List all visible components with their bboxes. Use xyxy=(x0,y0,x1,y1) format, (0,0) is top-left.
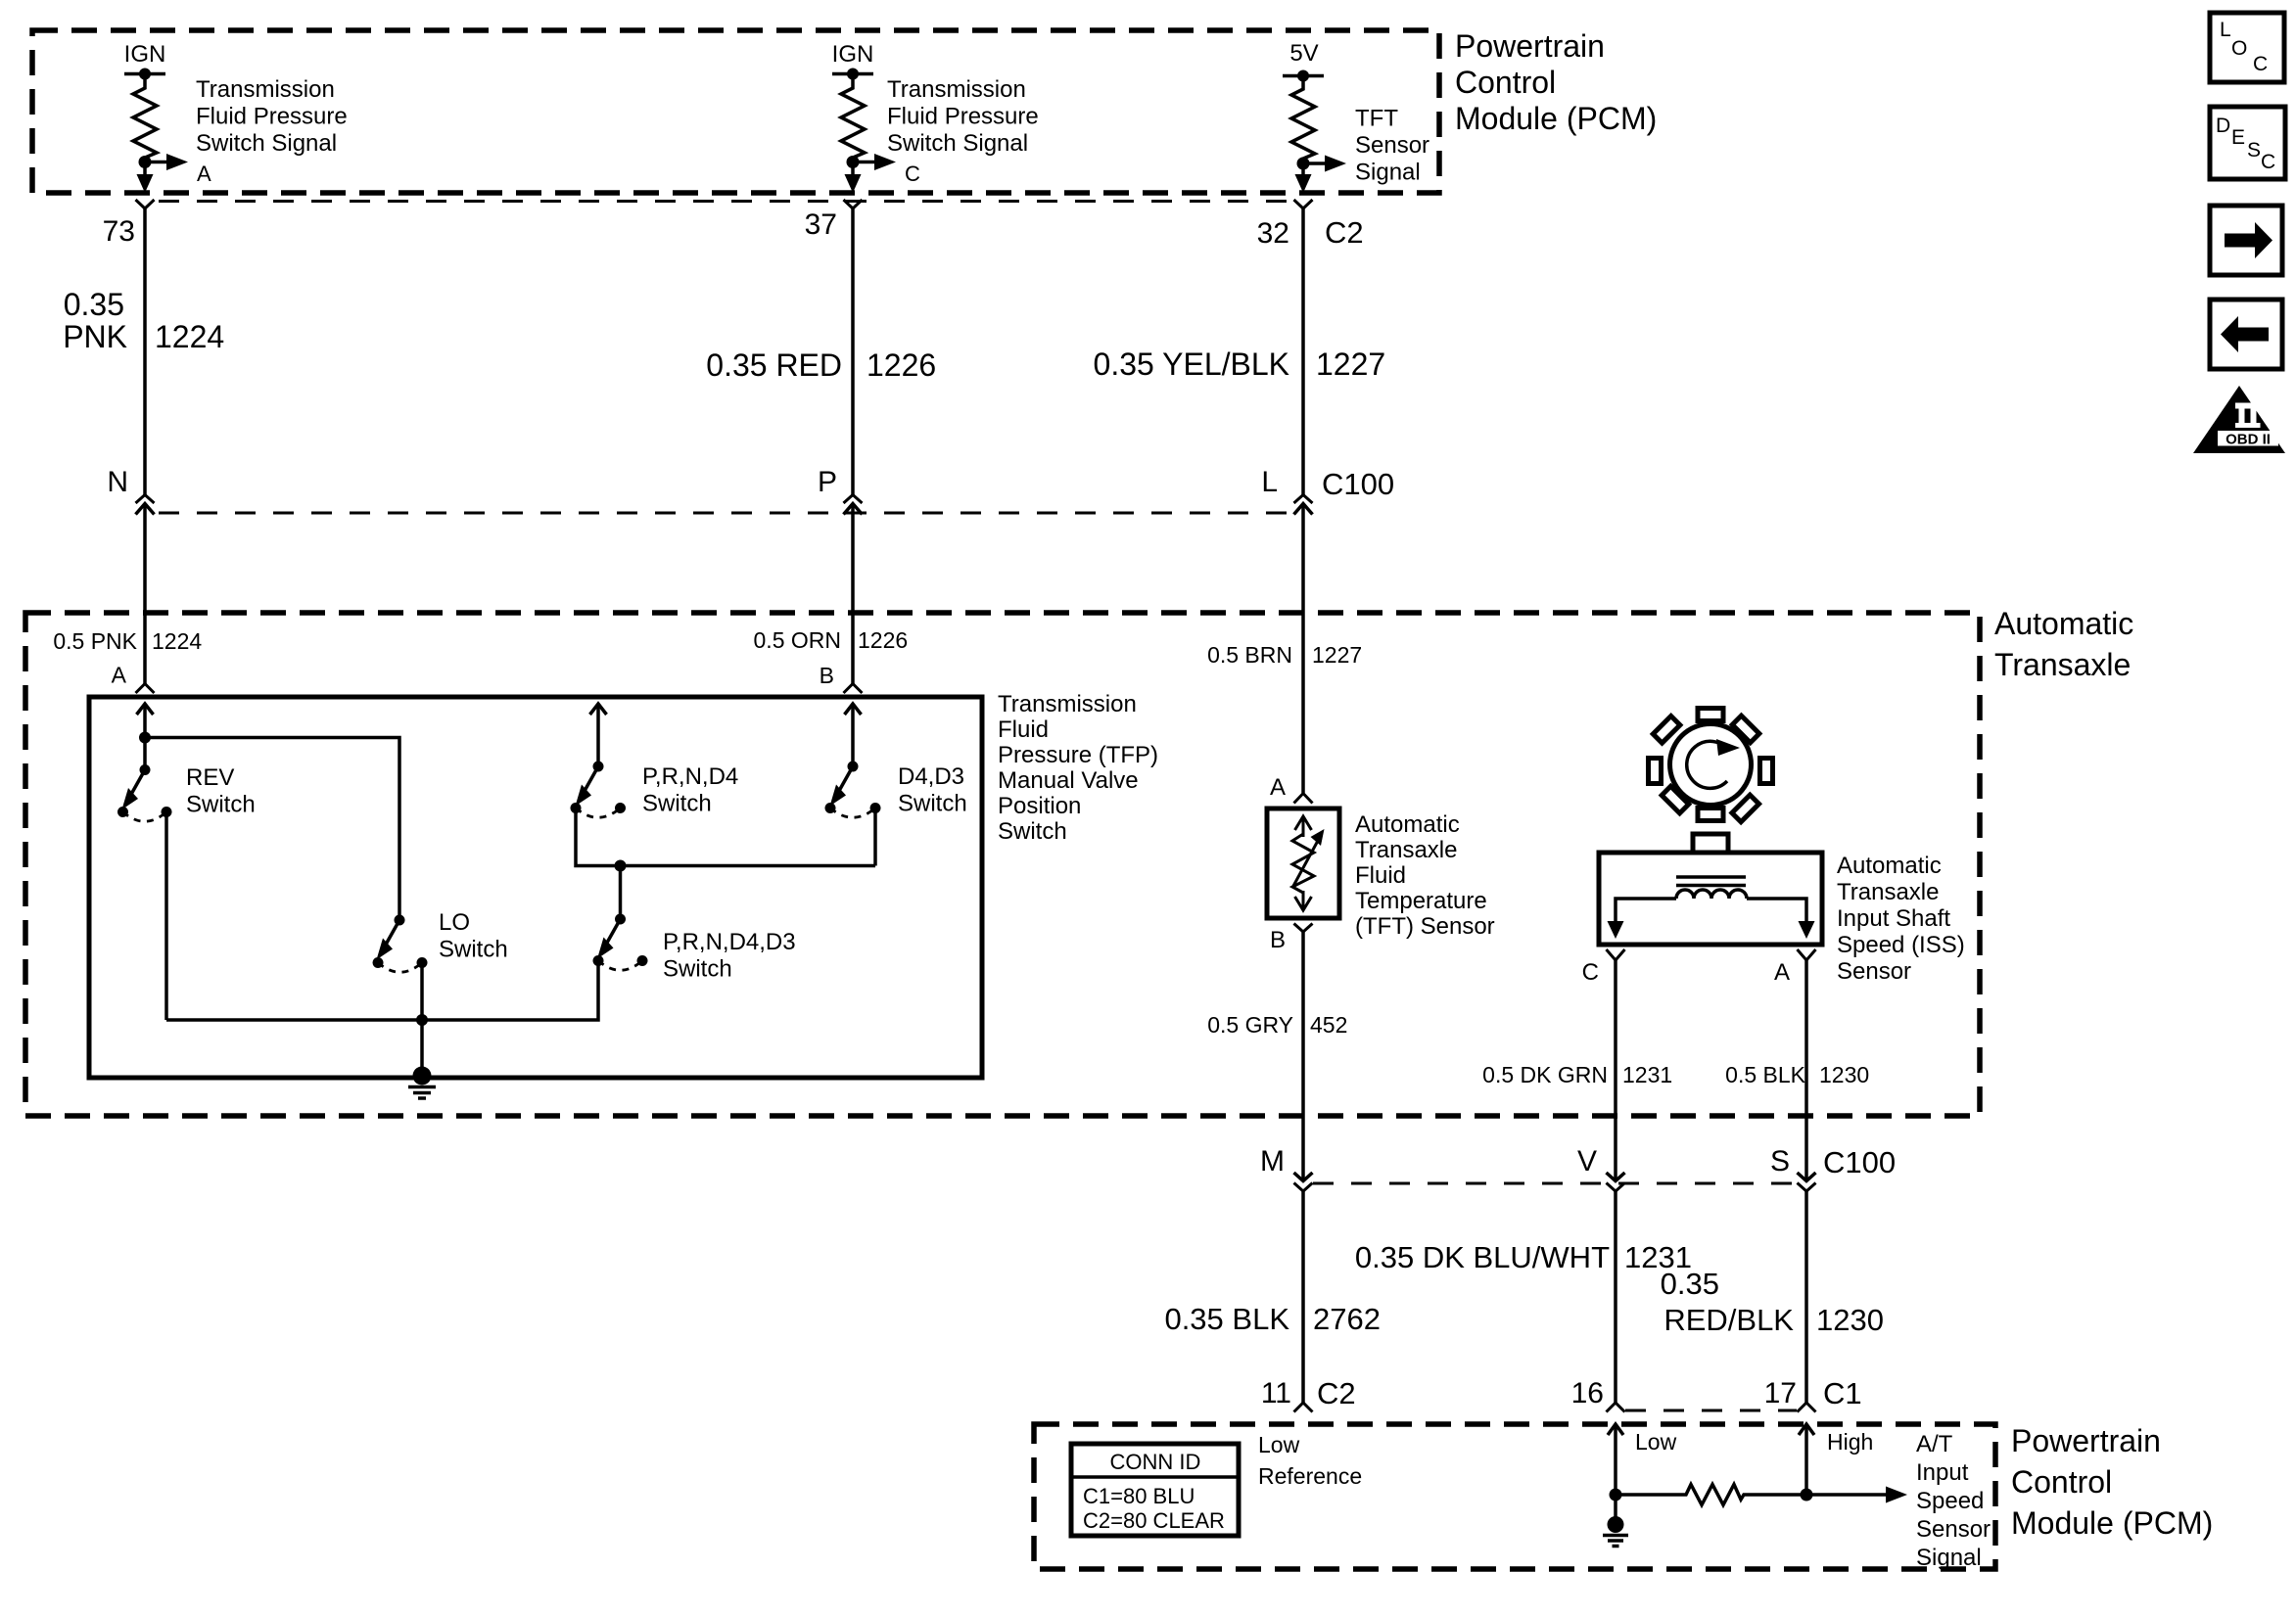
wire 1227 segment PCM to C100 xyxy=(1301,208,1305,495)
connector C100 pin N xyxy=(107,466,154,515)
svg-text:Temperature: Temperature xyxy=(1355,888,1487,914)
connector C1 dashed link 16-17 xyxy=(1625,1409,1797,1412)
svg-text:Switch: Switch xyxy=(642,791,712,817)
svg-text:Transmission: Transmission xyxy=(887,76,1026,103)
svg-text:A/T: A/T xyxy=(1916,1431,1953,1457)
svg-text:1227: 1227 xyxy=(1312,642,1362,668)
svg-text:A: A xyxy=(112,663,127,688)
svg-text:C: C xyxy=(2261,151,2275,173)
svg-text:Signal: Signal xyxy=(1355,160,1421,186)
svg-text:IGN: IGN xyxy=(124,41,166,68)
svg-text:Fluid: Fluid xyxy=(1355,862,1406,889)
svg-text:Switch: Switch xyxy=(663,956,732,983)
label 0.5 BLK 1230 xyxy=(1725,1062,1869,1087)
svg-text:Automatic: Automatic xyxy=(1837,853,1942,879)
label Transmission Fluid Pressure Switch Signal (left) xyxy=(196,76,348,186)
svg-text:A: A xyxy=(197,162,211,186)
connector C2 pin 11 fork xyxy=(1261,1376,1356,1412)
junction to PRND4D3 xyxy=(615,860,627,920)
svg-text:B: B xyxy=(820,663,834,688)
svg-text:REV: REV xyxy=(186,764,234,791)
svg-text:0.35: 0.35 xyxy=(64,287,124,322)
svg-text:1226: 1226 xyxy=(858,627,908,653)
svg-text:C: C xyxy=(2253,53,2268,75)
svg-text:0.5 BRN: 0.5 BRN xyxy=(1207,642,1292,668)
svg-text:P: P xyxy=(818,466,837,498)
svg-text:0.5 BLK: 0.5 BLK xyxy=(1725,1062,1805,1087)
resistor R2 (TFP switch signal pull-up, pin C) xyxy=(832,69,896,194)
wire 2762 C100 to PCM xyxy=(1614,1191,1617,1403)
svg-text:Pressure (TFP): Pressure (TFP) xyxy=(998,742,1158,768)
svg-text:(TFT) Sensor: (TFT) Sensor xyxy=(1355,913,1495,940)
svg-text:Sensor: Sensor xyxy=(1916,1516,1991,1543)
svg-text:Input: Input xyxy=(1916,1459,1969,1486)
label 0.5 PNK 1224 xyxy=(53,628,202,654)
label Automatic Transaxle Fluid Temperature (TFT) Sensor xyxy=(1355,811,1495,940)
ground (TFP switch common) xyxy=(408,1067,436,1099)
svg-text:73: 73 xyxy=(103,215,135,248)
connector C100 pin L xyxy=(1261,466,1394,515)
svg-text:Transaxle: Transaxle xyxy=(1994,647,2131,682)
svg-text:Input Shaft: Input Shaft xyxy=(1837,905,1950,932)
svg-text:1231: 1231 xyxy=(1622,1062,1672,1087)
svg-text:B: B xyxy=(1270,927,1286,953)
label 0.35 PNK 1224 xyxy=(63,287,224,354)
svg-text:C1: C1 xyxy=(1823,1376,1862,1410)
svg-text:L: L xyxy=(2220,19,2231,41)
svg-text:Powertrain: Powertrain xyxy=(1455,28,1605,64)
icon arrow right xyxy=(2210,206,2282,275)
ISS sensor box xyxy=(1599,834,1822,945)
svg-text:Switch: Switch xyxy=(998,818,1067,845)
icon OBD II triangle xyxy=(2193,386,2285,453)
connector C2 pin 73 xyxy=(103,200,155,248)
connector C1 pin 17 fork xyxy=(1764,1376,1862,1412)
label A/T Input Speed Sensor Signal xyxy=(1916,1431,1991,1571)
label 0.5 GRY 452 xyxy=(1207,1012,1347,1038)
svg-text:1227: 1227 xyxy=(1316,346,1385,382)
svg-text:C100: C100 xyxy=(1322,467,1394,501)
connector C100 bottom dashed line xyxy=(1313,1182,1798,1185)
icon LOC xyxy=(2210,13,2284,82)
wire 1224 segment C100 to transaxle xyxy=(143,504,147,684)
switch P,R,N,D4 xyxy=(571,762,739,818)
svg-text:C100: C100 xyxy=(1823,1145,1896,1179)
svg-text:Low: Low xyxy=(1635,1429,1677,1455)
connector C2 pin 37 xyxy=(805,200,863,241)
label 0.5 ORN 1226 xyxy=(754,627,909,653)
svg-text:E: E xyxy=(2231,126,2245,149)
svg-text:Speed: Speed xyxy=(1916,1488,1984,1514)
TFP manual valve position switch box xyxy=(89,697,982,1078)
label 0.35 RED 1226 xyxy=(706,347,936,383)
svg-text:LO: LO xyxy=(439,909,470,936)
ISS sensor leads with arrows xyxy=(1608,899,1815,939)
svg-text:Automatic: Automatic xyxy=(1994,606,2133,641)
wire REV feed with up arrow xyxy=(137,704,154,770)
wire LO right contact down to ground junction xyxy=(416,963,428,1076)
connector C1 pin 16 fork xyxy=(1571,1377,1625,1412)
svg-text:D: D xyxy=(2216,115,2230,137)
svg-text:C: C xyxy=(905,162,920,186)
connector TFT pin B chevron xyxy=(1294,924,1313,933)
svg-text:37: 37 xyxy=(805,208,837,241)
resistor R3 (TFT sensor pull-up) xyxy=(1283,70,1346,194)
label Transmission Fluid Pressure (TFP) Manual Valve Position Switch xyxy=(998,691,1158,845)
svg-text:Transmission: Transmission xyxy=(196,76,335,103)
wire D4D3 right contact down xyxy=(873,808,877,866)
icon arrow left xyxy=(2210,300,2282,369)
title: Automatic Transaxle xyxy=(1994,606,2133,682)
wire pin17 internal with up arrow xyxy=(1799,1424,1814,1495)
svg-text:S: S xyxy=(2247,139,2261,162)
connector ISS pin C fork xyxy=(1582,949,1625,986)
title: Powertrain Control Module (PCM) bottom right xyxy=(2011,1423,2213,1541)
label 0.5 BRN 1227 xyxy=(1207,642,1362,668)
svg-text:RED/BLK: RED/BLK xyxy=(1663,1303,1794,1337)
svg-text:P,R,N,D4,D3: P,R,N,D4,D3 xyxy=(663,929,796,955)
switch D4,D3 xyxy=(825,762,967,818)
wire pin16 internal with up arrow xyxy=(1608,1424,1623,1495)
label 0.35 DK BLU/WHT 1231 xyxy=(1355,1240,1692,1274)
svg-text:V: V xyxy=(1577,1145,1597,1178)
connector C100 pin P xyxy=(818,466,863,515)
svg-text:452: 452 xyxy=(1310,1012,1347,1038)
svg-text:Switch: Switch xyxy=(186,792,256,818)
connector C100 pin S xyxy=(1770,1145,1896,1191)
svg-text:Transaxle: Transaxle xyxy=(1837,879,1939,905)
svg-text:C1=80 BLU: C1=80 BLU xyxy=(1083,1484,1195,1508)
svg-text:A: A xyxy=(1774,959,1790,986)
svg-text:0.5 GRY: 0.5 GRY xyxy=(1207,1012,1293,1038)
resistor (PCM internal, horizontal) xyxy=(1616,1485,1806,1505)
connector ISS pin A fork xyxy=(1774,949,1816,986)
svg-text:Module (PCM): Module (PCM) xyxy=(1455,101,1657,136)
TFT sensor box xyxy=(1267,808,1339,918)
wire 1230 ISS to C100 xyxy=(1804,960,1808,1181)
label 0.35 RED/BLK 1230 xyxy=(1661,1267,1884,1337)
title: Powertrain Control Module (PCM) top right xyxy=(1455,28,1657,136)
ISS sensor core lines xyxy=(1676,877,1746,886)
resistor R1 (TFP switch signal pull-up, pin A) xyxy=(124,69,188,194)
svg-text:Transmission: Transmission xyxy=(998,691,1137,717)
svg-text:IGN: IGN xyxy=(832,41,874,68)
junction node pin17 xyxy=(1801,1489,1813,1501)
svg-text:Powertrain: Powertrain xyxy=(2011,1423,2161,1458)
svg-text:S: S xyxy=(1770,1145,1790,1178)
svg-text:Manual Valve: Manual Valve xyxy=(998,767,1139,794)
svg-text:CONN ID: CONN ID xyxy=(1110,1450,1201,1474)
arrow A/T input speed sensor signal xyxy=(1806,1487,1907,1503)
svg-text:1230: 1230 xyxy=(1819,1062,1869,1087)
wire REV right contact down xyxy=(164,812,168,1021)
svg-text:C2=80 CLEAR: C2=80 CLEAR xyxy=(1083,1508,1225,1533)
label 0.35 YEL/BLK 1227 xyxy=(1094,346,1386,382)
switch REV xyxy=(117,764,256,821)
ISS gear icon xyxy=(1626,680,1794,848)
connector TFP pin A xyxy=(136,684,155,694)
wire 1227 segment C100 to TFT sensor xyxy=(1301,504,1305,794)
wire 1230 C100 to PCM xyxy=(1804,1191,1808,1403)
svg-text:16: 16 xyxy=(1571,1377,1604,1409)
svg-text:Module (PCM): Module (PCM) xyxy=(2011,1505,2213,1541)
svg-text:C: C xyxy=(1582,959,1599,986)
CONN ID table xyxy=(1071,1444,1239,1536)
wire 1231 ISS to C100 xyxy=(1614,960,1617,1181)
label Transmission Fluid Pressure Switch Signal (middle) xyxy=(887,76,1039,186)
svg-text:0.35 DK BLU/WHT: 0.35 DK BLU/WHT xyxy=(1355,1240,1610,1274)
svg-text:0.35 BLK: 0.35 BLK xyxy=(1164,1302,1289,1336)
connector TFT pin A fork xyxy=(1294,794,1313,804)
wire PRND4 left contact to link row xyxy=(576,808,875,866)
connector C2 pin 32 xyxy=(1257,200,1364,250)
svg-text:Control: Control xyxy=(2011,1464,2112,1500)
svg-text:1230: 1230 xyxy=(1816,1303,1884,1337)
label Low Reference xyxy=(1258,1432,1362,1489)
svg-text:O: O xyxy=(2231,37,2247,60)
svg-text:Fluid Pressure: Fluid Pressure xyxy=(196,104,348,130)
svg-text:0.35 YEL/BLK: 0.35 YEL/BLK xyxy=(1094,346,1289,382)
label 0.35 BLK 2762 xyxy=(1164,1302,1381,1336)
connector C100 pin M xyxy=(1260,1145,1313,1191)
ISS sensor coil xyxy=(1676,890,1747,899)
svg-text:2762: 2762 xyxy=(1313,1302,1381,1336)
switch P,R,N,D4,D3 xyxy=(593,914,796,983)
svg-text:N: N xyxy=(107,466,128,498)
connector C100 top dashed line xyxy=(159,512,1289,515)
svg-text:TFT: TFT xyxy=(1355,106,1398,132)
PCM top dashed box xyxy=(32,30,1439,193)
svg-text:0.5 DK GRN: 0.5 DK GRN xyxy=(1482,1062,1608,1087)
connector TFP pin B xyxy=(844,684,863,694)
svg-text:Sensor: Sensor xyxy=(1837,958,1911,985)
svg-text:0.5 PNK: 0.5 PNK xyxy=(53,628,137,654)
svg-text:Fluid Pressure: Fluid Pressure xyxy=(887,104,1039,130)
PCM bottom dashed box xyxy=(1034,1424,1995,1569)
TFT sensor thermistor element xyxy=(1292,816,1325,910)
connector C100 pin V xyxy=(1577,1145,1625,1191)
svg-text:1224: 1224 xyxy=(155,319,224,354)
svg-text:Signal: Signal xyxy=(1916,1545,1982,1571)
wire 1226 segment C100 to transaxle xyxy=(851,504,855,684)
svg-text:Sensor: Sensor xyxy=(1355,132,1429,159)
svg-text:Transaxle: Transaxle xyxy=(1355,837,1457,863)
svg-text:Switch Signal: Switch Signal xyxy=(196,130,337,157)
svg-text:OBD II: OBD II xyxy=(2226,432,2271,448)
svg-text:0.35: 0.35 xyxy=(1661,1267,1719,1301)
junction node pin16 xyxy=(1610,1489,1622,1501)
wire PRND4 feed with up arrow xyxy=(590,704,607,766)
svg-text:C2: C2 xyxy=(1317,1376,1356,1410)
svg-text:M: M xyxy=(1260,1145,1285,1178)
svg-text:L: L xyxy=(1261,466,1278,498)
svg-text:Switch: Switch xyxy=(898,791,967,817)
label 0.5 DK GRN 1231 xyxy=(1482,1062,1672,1087)
svg-text:Control: Control xyxy=(1455,65,1556,100)
svg-text:1226: 1226 xyxy=(867,347,936,383)
svg-text:1224: 1224 xyxy=(152,628,202,654)
svg-text:Low: Low xyxy=(1258,1432,1300,1457)
svg-text:17: 17 xyxy=(1764,1377,1797,1409)
icon DESC xyxy=(2210,107,2285,179)
svg-text:Position: Position xyxy=(998,793,1081,819)
svg-text:PNK: PNK xyxy=(63,319,127,354)
svg-text:0.35 RED: 0.35 RED xyxy=(706,347,842,383)
Automatic Transaxle dashed box xyxy=(25,613,1980,1116)
svg-text:Fluid: Fluid xyxy=(998,716,1049,743)
svg-text:Switch: Switch xyxy=(439,937,508,963)
switch LO xyxy=(373,909,508,972)
svg-text:Speed (ISS): Speed (ISS) xyxy=(1837,932,1965,958)
svg-text:P,R,N,D4: P,R,N,D4 xyxy=(642,763,738,790)
wire branch to LO switch xyxy=(139,732,399,921)
svg-text:D4,D3: D4,D3 xyxy=(898,763,964,790)
svg-text:High: High xyxy=(1827,1429,1873,1455)
label Automatic Transaxle Input Shaft Speed (ISS) Sensor xyxy=(1837,853,1965,985)
svg-text:32: 32 xyxy=(1257,217,1289,250)
label TFT Sensor Signal xyxy=(1355,106,1429,186)
wire 452 TFT to C100 xyxy=(1301,932,1305,1181)
svg-text:11: 11 xyxy=(1261,1377,1291,1409)
svg-text:5V: 5V xyxy=(1289,40,1318,67)
wire D4D3 feed (pin B) with up arrow xyxy=(845,704,862,766)
svg-text:0.5 ORN: 0.5 ORN xyxy=(754,627,841,653)
svg-text:Reference: Reference xyxy=(1258,1463,1362,1489)
connector C2 top row dashed line xyxy=(159,200,1289,203)
svg-text:Switch Signal: Switch Signal xyxy=(887,130,1028,157)
ground (PCM internal) xyxy=(1603,1495,1628,1547)
svg-text:Automatic: Automatic xyxy=(1355,811,1460,838)
svg-text:C2: C2 xyxy=(1325,215,1364,250)
wire PRND4D3 left contact down to bottom row xyxy=(166,961,598,1021)
svg-text:A: A xyxy=(1270,774,1286,801)
wire 1226 segment PCM to C100 xyxy=(851,208,855,495)
wire 1231 C100 to PCM xyxy=(1301,1191,1305,1403)
wire 1224 segment PCM to C100 xyxy=(143,208,147,495)
